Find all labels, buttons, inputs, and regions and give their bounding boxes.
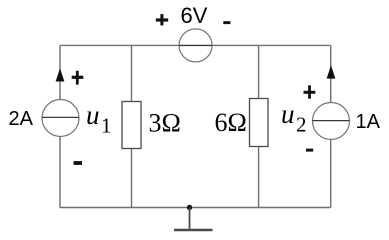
ground [174,208,213,231]
minus of u2 [306,149,313,152]
plus of u2 [304,85,316,98]
wire bottom (reference node) [60,207,331,209]
wire 3-ohm branch [131,45,133,207]
plus of 6V [156,14,168,25]
node dot (ground junction) [187,205,192,210]
plus of u1 [72,71,84,85]
arrow of 1A source (current direction up) [327,65,336,78]
svg-text:u1: u1 [86,100,112,138]
svg-text:u2: u2 [281,99,307,137]
svg-text:6Ω: 6Ω [215,108,247,137]
svg-text:3Ω: 3Ω [149,109,181,138]
arrow of 2A source (current direction up) [56,68,65,81]
current source 2A (left) [42,100,79,137]
svg-text:6V: 6V [181,3,208,28]
wire 6-ohm branch [258,45,260,207]
resistor 3-ohm R1 [122,102,141,149]
minus of u1 [74,161,82,165]
wire right branch [330,45,332,207]
minus of 6V [223,21,230,24]
svg-text:2A: 2A [9,108,34,130]
current source 1A (right) [313,103,350,140]
wire left branch [59,45,61,207]
svg-text:1A: 1A [356,111,381,133]
voltage source 6V (top) [179,29,212,62]
resistor 6-ohm R2 [250,99,269,147]
wire top: node a to node b [60,44,331,46]
